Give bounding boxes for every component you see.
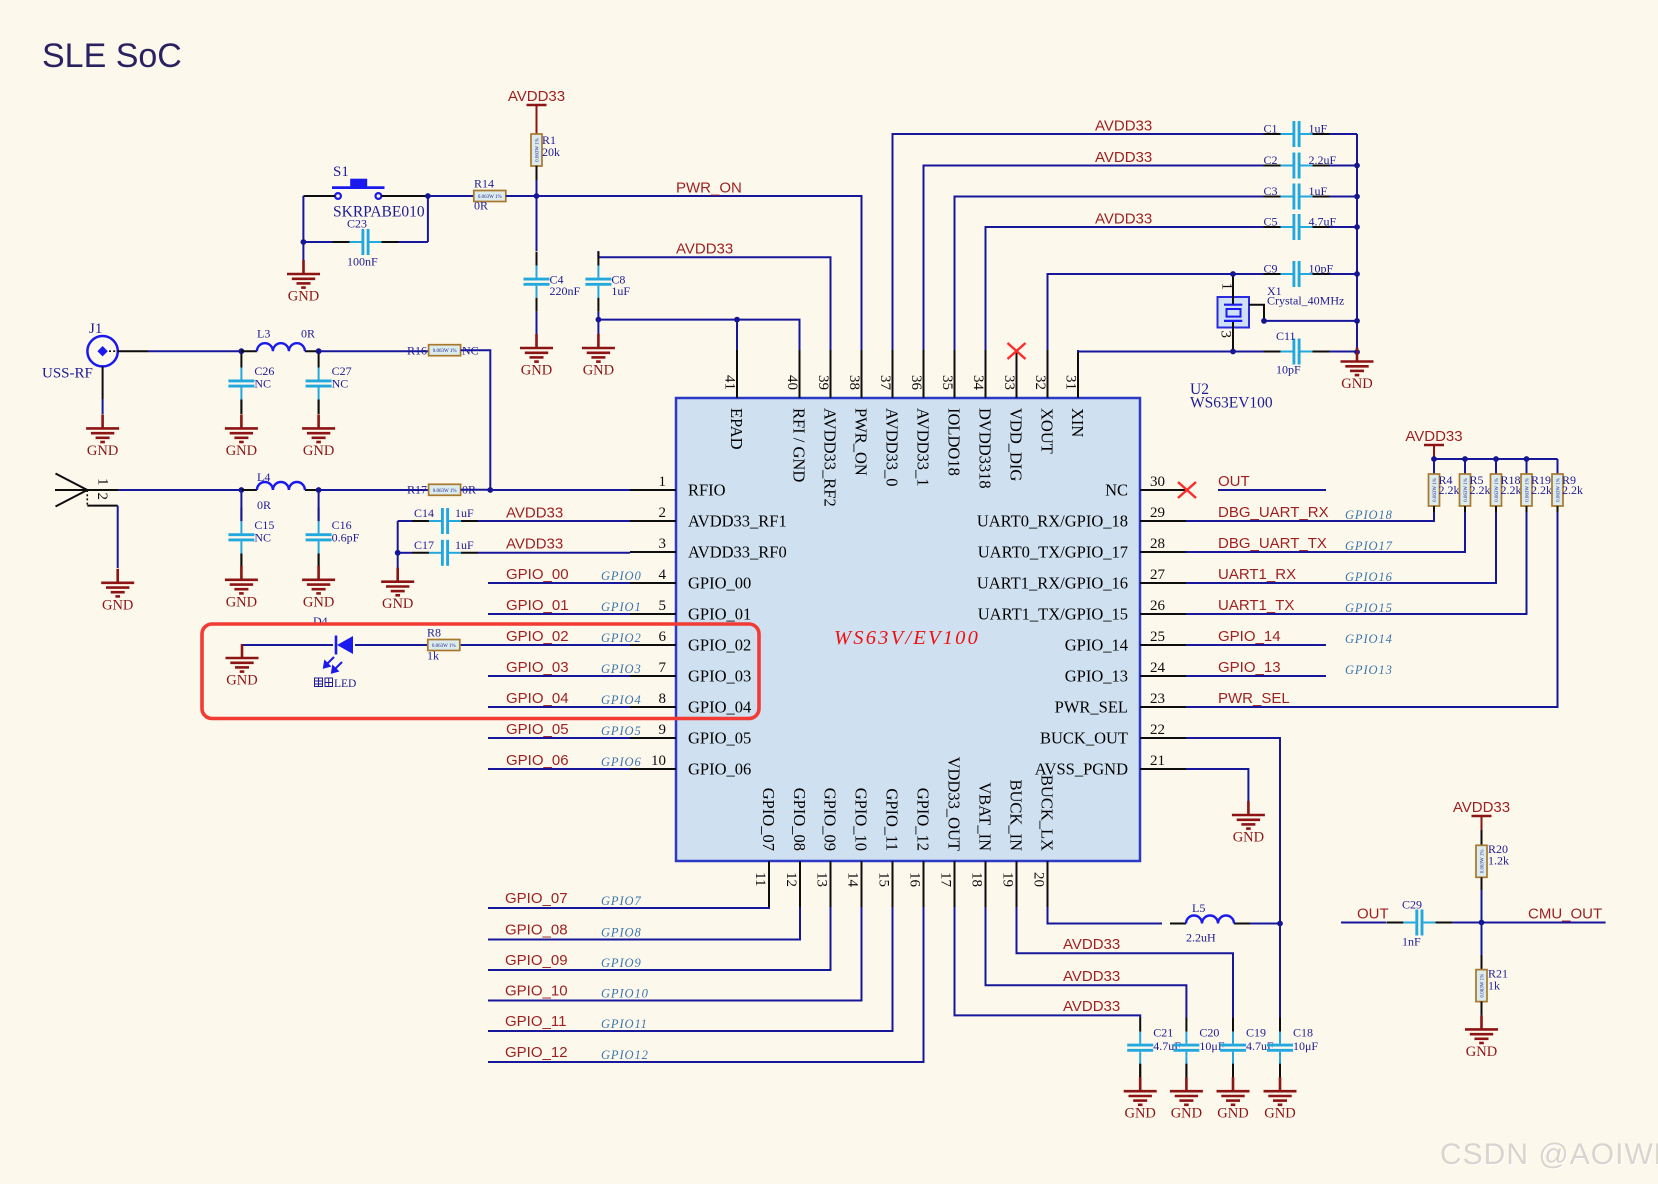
svg-text:NC: NC bbox=[332, 377, 349, 391]
svg-text:24: 24 bbox=[1150, 660, 1166, 676]
svg-text:WS63V/EV100: WS63V/EV100 bbox=[834, 627, 980, 649]
wire crystal line to C9 bbox=[1233, 273, 1264, 275]
resistor R4 bbox=[1429, 474, 1440, 506]
wire net AVDD33 pin3 bbox=[478, 552, 630, 554]
svg-text:0.063W 1%: 0.063W 1% bbox=[433, 489, 457, 494]
wire net GPIO_11 bbox=[488, 907, 893, 1031]
svg-text:IOLDO18: IOLDO18 bbox=[945, 408, 964, 476]
wire net GPIO_03 bbox=[488, 675, 630, 677]
svg-text:PWR_SEL: PWR_SEL bbox=[1055, 698, 1128, 717]
wire power stem to R1 bbox=[536, 105, 538, 134]
svg-text:GPIO13: GPIO13 bbox=[1345, 663, 1393, 677]
svg-text:8: 8 bbox=[659, 691, 667, 707]
svg-text:2.2k: 2.2k bbox=[1562, 483, 1583, 497]
svg-text:GPIO14: GPIO14 bbox=[1345, 632, 1393, 646]
svg-text:9: 9 bbox=[659, 722, 667, 738]
IC U2 WS63EV100 body bbox=[676, 398, 1140, 861]
svg-text:PWR_ON: PWR_ON bbox=[676, 180, 742, 197]
svg-text:0R: 0R bbox=[257, 498, 271, 512]
svg-text:GPIO_13: GPIO_13 bbox=[1218, 659, 1281, 676]
resistor R16 bbox=[429, 345, 461, 356]
wire XIN to crystal bbox=[1078, 350, 1233, 352]
wire C14 left bbox=[398, 520, 412, 522]
pin 26 UART1_TX/GPIO_15 (right) bbox=[978, 598, 1186, 624]
svg-text:40: 40 bbox=[784, 375, 800, 390]
svg-text:L5: L5 bbox=[1192, 901, 1205, 915]
wire net RFIO to pin1 bbox=[490, 489, 630, 491]
wire C16 top bbox=[318, 490, 320, 521]
label 蓝色LED (blue LED) bbox=[315, 678, 333, 687]
wire net GPIO_06 bbox=[488, 768, 630, 770]
resistor R14 bbox=[474, 191, 506, 202]
node R5 top junction bbox=[1462, 456, 1468, 462]
inductor L5 bbox=[1170, 916, 1250, 924]
pin 16 GPIO_12 (bottom) bbox=[923, 861, 925, 907]
resistor R21 bbox=[1476, 970, 1487, 1002]
svg-text:USS-RF: USS-RF bbox=[42, 366, 93, 382]
capacitor C5 bbox=[1264, 214, 1337, 240]
svg-text:GPIO0: GPIO0 bbox=[601, 569, 642, 583]
wire net GPIO_00 bbox=[488, 582, 630, 584]
svg-text:1: 1 bbox=[95, 478, 111, 486]
wire C26 to GND bbox=[240, 400, 242, 415]
capacitor C26 bbox=[228, 354, 274, 414]
wire net C1 rail bbox=[893, 134, 1264, 350]
svg-text:10pF: 10pF bbox=[1276, 363, 1301, 377]
svg-text:6: 6 bbox=[659, 629, 667, 645]
ground R21 bbox=[1465, 1015, 1498, 1060]
svg-text:GPIO15: GPIO15 bbox=[1345, 601, 1393, 615]
svg-text:RFI / GND: RFI / GND bbox=[790, 408, 809, 482]
wire R17 out bbox=[461, 489, 491, 491]
svg-text:1k: 1k bbox=[1488, 979, 1500, 993]
capacitor C2 bbox=[1264, 153, 1337, 179]
resistor R17 bbox=[429, 484, 461, 495]
wire C1 to bus bbox=[1330, 133, 1358, 135]
pin 9 GPIO_05 (left) bbox=[630, 722, 751, 748]
pin 39 AVDD33_RF2 (top) bbox=[830, 350, 832, 398]
svg-text:21: 21 bbox=[1150, 753, 1165, 769]
wire S1 right lead bbox=[381, 195, 428, 197]
pin 4 GPIO_00 (left) bbox=[630, 567, 751, 593]
svg-text:GPIO1: GPIO1 bbox=[601, 600, 642, 614]
wire C2 to bus bbox=[1330, 165, 1358, 167]
svg-text:3: 3 bbox=[1218, 331, 1234, 339]
ground C26 bbox=[225, 414, 258, 459]
pin 28 UART0_TX/GPIO_17 (right) bbox=[978, 536, 1186, 562]
svg-text:GPIO18: GPIO18 bbox=[1345, 508, 1393, 522]
pin 27 UART1_RX/GPIO_16 (right) bbox=[977, 567, 1186, 593]
svg-text:LED: LED bbox=[334, 678, 356, 690]
node L5/BUCK_OUT junction bbox=[1277, 921, 1283, 927]
svg-text:5: 5 bbox=[659, 598, 667, 614]
wire net DBG_UART_RX bbox=[1186, 512, 1434, 521]
resistor R9 bbox=[1552, 474, 1563, 506]
svg-text:CMU_OUT: CMU_OUT bbox=[1528, 906, 1602, 923]
node crystal out junction bbox=[1261, 318, 1267, 324]
svg-text:GPIO_13: GPIO_13 bbox=[1065, 667, 1128, 686]
node C8/EPAD junction bbox=[596, 317, 602, 323]
pin 22 BUCK_OUT (right) bbox=[1040, 722, 1186, 748]
svg-text:AVDD33: AVDD33 bbox=[1063, 998, 1120, 1015]
svg-text:AVDD33: AVDD33 bbox=[1063, 968, 1120, 985]
capacitor C23 bbox=[333, 229, 399, 255]
wire R5 top lead bbox=[1464, 459, 1466, 474]
wire C16 to GND bbox=[318, 554, 320, 567]
svg-text:2: 2 bbox=[659, 505, 667, 521]
pin 34 DVDD3318 (top) bbox=[985, 350, 987, 398]
node R4 top junction bbox=[1431, 456, 1437, 462]
wire to R20 bbox=[1481, 830, 1483, 845]
svg-text:C2: C2 bbox=[1264, 153, 1278, 167]
wire R1 lower lead bbox=[536, 166, 538, 180]
svg-text:VBAT_IN: VBAT_IN bbox=[976, 782, 995, 851]
wire R14 to junction bbox=[506, 195, 537, 197]
svg-text:GPIO_06: GPIO_06 bbox=[688, 760, 751, 779]
svg-text:VDD33_OUT: VDD33_OUT bbox=[945, 757, 964, 851]
svg-text:30: 30 bbox=[1150, 474, 1165, 490]
svg-text:32: 32 bbox=[1032, 375, 1048, 390]
wire net UART1_RX bbox=[1186, 512, 1496, 583]
svg-text:GND: GND bbox=[226, 594, 257, 610]
wire R21 bottom lead bbox=[1481, 1002, 1483, 1016]
highlight rectangle (red) bbox=[202, 624, 759, 719]
wire net GPIO_12 bbox=[488, 907, 924, 1062]
svg-text:UART1_RX/GPIO_16: UART1_RX/GPIO_16 bbox=[977, 574, 1128, 593]
svg-text:0.063W 1%: 0.063W 1% bbox=[1433, 478, 1438, 502]
node bus junction bbox=[1354, 163, 1360, 169]
svg-text:12: 12 bbox=[783, 872, 799, 887]
svg-text:SLE SoC: SLE SoC bbox=[42, 37, 182, 75]
ground C8 bbox=[582, 334, 615, 379]
svg-text:GND: GND bbox=[382, 596, 413, 612]
svg-text:GPIO_14: GPIO_14 bbox=[1218, 628, 1281, 645]
svg-text:2.2uH: 2.2uH bbox=[1186, 931, 1216, 945]
svg-text:37: 37 bbox=[877, 375, 893, 391]
svg-text:GND: GND bbox=[102, 597, 133, 613]
svg-text:AVDD33: AVDD33 bbox=[1095, 118, 1152, 135]
svg-text:0R: 0R bbox=[301, 327, 315, 341]
capacitor C8 bbox=[585, 252, 630, 312]
svg-text:GND: GND bbox=[1171, 1106, 1202, 1122]
pin 2 AVDD33_RF1 (left) bbox=[630, 505, 787, 531]
svg-text:GPIO5: GPIO5 bbox=[601, 724, 642, 738]
ground antenna bbox=[101, 569, 134, 614]
svg-text:C23: C23 bbox=[347, 217, 367, 231]
capacitor C9 bbox=[1264, 261, 1334, 287]
svg-text:0R: 0R bbox=[474, 199, 488, 213]
svg-text:GND: GND bbox=[1217, 1106, 1248, 1122]
svg-text:GPIO11: GPIO11 bbox=[601, 1017, 648, 1031]
svg-text:GPIO_11: GPIO_11 bbox=[505, 1013, 566, 1030]
wire net OUT bbox=[1341, 922, 1386, 924]
antenna ANT bbox=[55, 474, 119, 507]
svg-text:1.2k: 1.2k bbox=[1488, 854, 1509, 868]
svg-text:7: 7 bbox=[659, 660, 667, 676]
svg-text:L4: L4 bbox=[257, 470, 270, 484]
svg-text:UART0_RX/GPIO_18: UART0_RX/GPIO_18 bbox=[977, 512, 1128, 531]
wire C4 to GND bbox=[536, 312, 538, 334]
capacitor C15 bbox=[228, 507, 274, 567]
svg-text:GPIO_05: GPIO_05 bbox=[688, 729, 751, 748]
pin 1 RFIO (left) bbox=[630, 474, 726, 500]
wire net GPIO_02 (LED row) bbox=[242, 644, 333, 646]
wire down to GND bbox=[302, 242, 304, 260]
capacitor C21 bbox=[1127, 1018, 1181, 1078]
pin 38 PWR_ON (top) bbox=[861, 350, 863, 398]
svg-text:28: 28 bbox=[1150, 536, 1165, 552]
svg-text:UART1_TX: UART1_TX bbox=[1218, 597, 1294, 614]
pin 32 XOUT (top) bbox=[1047, 350, 1049, 398]
svg-text:EPAD: EPAD bbox=[727, 408, 746, 450]
svg-text:AVDD33: AVDD33 bbox=[506, 505, 563, 522]
wire AVSS_PGND to ground bbox=[1186, 769, 1248, 801]
svg-text:GPIO_06: GPIO_06 bbox=[506, 752, 569, 769]
svg-text:23: 23 bbox=[1150, 691, 1165, 707]
svg-text:100nF: 100nF bbox=[347, 255, 378, 269]
pin 40 RFI / GND (top) bbox=[799, 350, 801, 398]
wire net CMU_OUT bbox=[1452, 922, 1605, 924]
svg-text:38: 38 bbox=[846, 375, 862, 390]
svg-text:18: 18 bbox=[969, 872, 985, 887]
pin 24 GPIO_13 (right) bbox=[1065, 660, 1186, 686]
capacitor C16 bbox=[306, 507, 360, 567]
wire J1 to GND bbox=[102, 399, 104, 414]
wire net PWR_ON bbox=[537, 196, 862, 350]
resistor R5 bbox=[1460, 474, 1471, 506]
svg-text:22: 22 bbox=[1150, 722, 1165, 738]
pin 25 GPIO_14 (right) bbox=[1065, 629, 1186, 655]
svg-text:OUT: OUT bbox=[1357, 906, 1389, 923]
svg-text:GPIO_05: GPIO_05 bbox=[506, 721, 569, 738]
svg-text:C1: C1 bbox=[1264, 122, 1278, 136]
capacitor C18 bbox=[1267, 1018, 1318, 1078]
wire net C2 rail bbox=[924, 166, 1264, 351]
svg-text:GND: GND bbox=[1124, 1106, 1155, 1122]
wire L4 to R17 bbox=[321, 489, 429, 491]
wire C15 top bbox=[240, 490, 242, 521]
wire C8 to GND bbox=[597, 320, 599, 334]
wire net GPIO_05 bbox=[488, 737, 630, 739]
wire net DBG_UART_TX bbox=[1186, 512, 1465, 552]
wire S1 left lead bbox=[303, 195, 335, 197]
svg-text:GPIO_02: GPIO_02 bbox=[506, 628, 569, 645]
wire R16 to RFIO column bbox=[461, 350, 491, 490]
wire C5 to bus bbox=[1330, 226, 1358, 228]
node R18 top junction bbox=[1493, 456, 1499, 462]
no-connect X pin30 NC bbox=[1178, 482, 1196, 498]
node RFIO junction bbox=[487, 487, 493, 493]
wire C3 to bus bbox=[1330, 196, 1358, 198]
pin 8 GPIO_04 (left) bbox=[630, 691, 751, 717]
wire net GPIO_13 bbox=[1186, 675, 1326, 677]
svg-text:0.063W 1%: 0.063W 1% bbox=[1557, 478, 1562, 502]
wire C23 right bbox=[399, 241, 428, 243]
pin 37 AVDD33_0 (top) bbox=[892, 350, 894, 398]
capacitor C17 bbox=[412, 538, 478, 566]
svg-text:GND: GND bbox=[521, 363, 552, 379]
svg-text:UART0_TX/GPIO_17: UART0_TX/GPIO_17 bbox=[978, 543, 1128, 562]
svg-text:1k: 1k bbox=[427, 649, 439, 663]
svg-text:GPIO_09: GPIO_09 bbox=[821, 788, 840, 851]
wire net C5 rail bbox=[986, 227, 1264, 350]
wire net OUT stub bbox=[1218, 489, 1326, 491]
wire C21 to GND bbox=[1139, 1064, 1141, 1077]
wire J1 output lead bbox=[118, 350, 148, 352]
wire down to C18 bbox=[1279, 924, 1281, 1019]
svg-text:14: 14 bbox=[845, 872, 861, 888]
svg-text:C21: C21 bbox=[1153, 1026, 1173, 1040]
wire C27 to GND bbox=[318, 400, 320, 415]
svg-text:GPIO2: GPIO2 bbox=[601, 631, 642, 645]
svg-text:CSDN @AOIWB: CSDN @AOIWB bbox=[1440, 1138, 1658, 1171]
ground C27 bbox=[302, 414, 335, 459]
pin 35 IOLDO18 (top) bbox=[954, 350, 956, 398]
svg-text:34: 34 bbox=[970, 375, 986, 391]
svg-text:220nF: 220nF bbox=[550, 284, 581, 298]
svg-text:2: 2 bbox=[94, 493, 110, 501]
svg-text:0.063W 1%: 0.063W 1% bbox=[1495, 478, 1500, 502]
svg-text:VDD_DIG: VDD_DIG bbox=[1007, 408, 1026, 481]
node EPAD junction bbox=[734, 317, 740, 323]
pin 11 GPIO_07 (bottom) bbox=[768, 861, 770, 907]
svg-text:AVDD33_RF0: AVDD33_RF0 bbox=[688, 543, 787, 562]
resistor R20 bbox=[1476, 845, 1487, 877]
wire R4 bottom lead bbox=[1433, 506, 1435, 512]
svg-text:R17: R17 bbox=[407, 483, 427, 497]
svg-text:AVDD33_1: AVDD33_1 bbox=[914, 408, 933, 487]
svg-text:36: 36 bbox=[908, 375, 924, 391]
svg-text:GPIO_09: GPIO_09 bbox=[505, 952, 568, 969]
ground C21 bbox=[1124, 1077, 1157, 1122]
svg-text:UART1_RX: UART1_RX bbox=[1218, 566, 1296, 583]
svg-text:NC: NC bbox=[254, 377, 271, 391]
svg-text:35: 35 bbox=[939, 375, 955, 390]
pin 21 AVSS_PGND (right) bbox=[1035, 753, 1186, 779]
svg-text:R8: R8 bbox=[427, 626, 441, 640]
wire J1 ground lead bbox=[102, 366, 104, 399]
svg-text:11: 11 bbox=[752, 872, 768, 886]
svg-text:GPIO_11: GPIO_11 bbox=[883, 788, 902, 851]
svg-text:C29: C29 bbox=[1402, 898, 1422, 912]
wire S1 down to C23 net bbox=[302, 196, 304, 242]
wire antenna to L4 bbox=[119, 489, 242, 491]
svg-text:AVDD33: AVDD33 bbox=[676, 241, 733, 258]
wire net AVDD33 to pin39 bbox=[598, 257, 830, 350]
ground C15 bbox=[225, 566, 258, 611]
pin 18 VBAT_IN (bottom) bbox=[985, 861, 987, 907]
ground J1 bbox=[86, 414, 119, 459]
wire C18 to GND bbox=[1279, 1064, 1281, 1077]
svg-text:BUCK_OUT: BUCK_OUT bbox=[1040, 729, 1128, 748]
svg-text:0.6pF: 0.6pF bbox=[332, 531, 360, 545]
svg-text:PWR_SEL: PWR_SEL bbox=[1218, 690, 1290, 707]
wire L3 to R16 bbox=[321, 350, 429, 352]
wire resistor bank bus bbox=[1434, 458, 1558, 460]
svg-text:AVDD33: AVDD33 bbox=[508, 88, 565, 105]
ground C14/C17 bbox=[381, 568, 414, 613]
node R19 top junction bbox=[1524, 456, 1530, 462]
wire net BUCK_OUT bbox=[1186, 738, 1280, 924]
svg-text:41: 41 bbox=[722, 375, 738, 390]
svg-text:GPIO_00: GPIO_00 bbox=[688, 574, 751, 593]
node S1/C23/GND junction bbox=[301, 239, 307, 245]
wire to R14 bbox=[428, 195, 474, 197]
node bus junction bbox=[1354, 224, 1360, 230]
node C15 tap bbox=[239, 487, 245, 493]
wire net GPIO_04 bbox=[488, 706, 630, 708]
svg-text:GND: GND bbox=[583, 363, 614, 379]
svg-text:GND: GND bbox=[1466, 1044, 1497, 1060]
svg-text:GPIO10: GPIO10 bbox=[601, 987, 649, 1001]
node crystal pin3 junction bbox=[1230, 349, 1236, 355]
svg-text:GPIO_08: GPIO_08 bbox=[790, 788, 809, 851]
pin 41 EPAD (top) bbox=[736, 350, 738, 398]
pin 14 GPIO_10 (bottom) bbox=[861, 861, 863, 907]
svg-text:GPIO_02: GPIO_02 bbox=[688, 636, 751, 655]
svg-text:39: 39 bbox=[815, 375, 831, 390]
pin 6 GPIO_02 (left) bbox=[630, 629, 751, 655]
node bus junction bbox=[1354, 318, 1360, 324]
wire R19 top lead bbox=[1526, 459, 1528, 474]
svg-text:C17: C17 bbox=[414, 538, 434, 552]
svg-text:GPIO_04: GPIO_04 bbox=[506, 690, 569, 707]
wire node down bbox=[1481, 923, 1483, 956]
svg-text:1uF: 1uF bbox=[611, 284, 630, 298]
svg-text:GPIO_14: GPIO_14 bbox=[1065, 636, 1128, 655]
svg-text:GPIO_03: GPIO_03 bbox=[506, 659, 569, 676]
node bus junction bbox=[1354, 194, 1360, 200]
svg-text:15: 15 bbox=[876, 872, 892, 887]
svg-text:1: 1 bbox=[1219, 283, 1235, 291]
ground C19 bbox=[1217, 1077, 1250, 1122]
ground LED bbox=[226, 644, 259, 689]
svg-text:GPIO_10: GPIO_10 bbox=[852, 788, 871, 851]
wire net GPIO_14 bbox=[1186, 644, 1326, 646]
svg-text:10μF: 10μF bbox=[1293, 1039, 1318, 1053]
connector J1 USS-RF bbox=[87, 336, 118, 366]
wire net GPIO_07 bbox=[488, 907, 769, 908]
svg-text:GND: GND bbox=[87, 443, 118, 459]
svg-text:AVDD33: AVDD33 bbox=[1405, 428, 1462, 445]
no-connect X pin33 VDD_DIG bbox=[1008, 343, 1026, 359]
svg-text:UART1_TX/GPIO_15: UART1_TX/GPIO_15 bbox=[978, 605, 1128, 624]
wire XOUT to crystal bbox=[1048, 274, 1234, 350]
svg-text:GPIO_12: GPIO_12 bbox=[914, 788, 933, 851]
wire R20 bottom lead bbox=[1481, 877, 1483, 890]
svg-text:AVDD33: AVDD33 bbox=[1095, 149, 1152, 166]
svg-text:C5: C5 bbox=[1264, 215, 1278, 229]
ground C18 bbox=[1264, 1077, 1297, 1122]
svg-text:C3: C3 bbox=[1264, 184, 1278, 198]
wire power stem R20 bbox=[1481, 816, 1483, 830]
svg-text:AVDD33: AVDD33 bbox=[506, 536, 563, 553]
wire C17 left bbox=[398, 552, 412, 554]
pin 31 XIN (top) bbox=[1077, 350, 1079, 398]
LED D4 (blue) bbox=[324, 636, 353, 673]
wire net C3 rail bbox=[955, 197, 1264, 351]
svg-text:GPIO16: GPIO16 bbox=[1345, 570, 1393, 584]
svg-text:GPIO_01: GPIO_01 bbox=[688, 605, 751, 624]
svg-text:NC: NC bbox=[254, 531, 271, 545]
svg-text:GPIO12: GPIO12 bbox=[601, 1048, 649, 1062]
svg-text:C18: C18 bbox=[1293, 1026, 1313, 1040]
svg-text:XOUT: XOUT bbox=[1038, 408, 1057, 454]
ground S1 bbox=[287, 260, 320, 305]
svg-text:AVDD33: AVDD33 bbox=[1063, 936, 1120, 953]
svg-text:26: 26 bbox=[1150, 598, 1166, 614]
svg-text:0.063W 1%: 0.063W 1% bbox=[1481, 974, 1486, 998]
